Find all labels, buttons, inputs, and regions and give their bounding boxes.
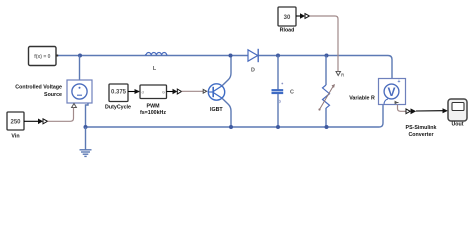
diode D (248, 49, 258, 74)
svg-text:Source: Source (44, 92, 62, 98)
node junction IGBT collector (229, 54, 233, 58)
wire PS Rload to variable resistor (310, 16, 339, 72)
wire PWM to converter (167, 91, 173, 93)
node junction IGBT emitter (229, 125, 233, 129)
scope Uout (448, 99, 467, 128)
svg-text:Uout: Uout (451, 122, 463, 128)
wire bottom rail (86, 105, 384, 128)
constant Rload 30 (278, 7, 296, 33)
svg-text:250: 250 (10, 119, 21, 125)
svg-text:DutyCycle: DutyCycle (105, 104, 131, 110)
svg-text:Controlled Voltage: Controlled Voltage (15, 84, 62, 90)
capacitor C (272, 83, 295, 103)
Simulink-PS converter (PWM) (173, 89, 182, 94)
svg-text:+: + (398, 79, 401, 85)
svg-text:Variable R: Variable R (349, 95, 375, 101)
svg-text:D: D (251, 67, 255, 73)
constant Vin 250 (7, 112, 24, 139)
Simulink-PS converter (Vin) (38, 119, 48, 125)
constant DutyCycle 0.375 (105, 84, 131, 110)
wire top rail (58, 56, 392, 79)
node junction resistor bottom (325, 125, 329, 129)
svg-text:fs=100kHz: fs=100kHz (140, 110, 166, 116)
wire PS gate signal (182, 90, 204, 92)
PWM generator block (140, 85, 167, 116)
variable resistor R (318, 84, 375, 111)
IGBT gate port (203, 89, 206, 93)
node junction ground (84, 125, 88, 129)
variable resistor PS port (336, 72, 341, 76)
svg-text:Vin: Vin (11, 133, 19, 139)
wire CVS negative to bottom rail (86, 103, 89, 127)
svg-text:Converter: Converter (408, 132, 433, 138)
wire Rload to converter (296, 15, 300, 17)
svg-text:Rload: Rload (280, 27, 295, 33)
svg-text:PS-Simulink: PS-Simulink (406, 125, 437, 131)
wire sensor output PS (398, 105, 407, 112)
svg-text:C: C (290, 90, 294, 96)
wire resistor branch top (325, 56, 327, 86)
ground electrical reference (80, 150, 92, 157)
Simulink-PS converter (Rload) (300, 13, 310, 18)
svg-text:IGBT: IGBT (210, 107, 223, 113)
node junction capacitor bottom (276, 125, 280, 129)
wire PS Vin to CVS input (48, 108, 74, 122)
svg-text:0.375: 0.375 (111, 90, 127, 96)
transistor IGBT (208, 56, 231, 128)
svg-text:PWM: PWM (147, 103, 161, 109)
node junction capacitor top (276, 54, 280, 58)
svg-text:30: 30 (284, 15, 291, 21)
node junction resistor top (325, 54, 329, 58)
wire CVS top drop (79, 56, 81, 81)
solver config block f(x)=0 (29, 47, 59, 66)
node junction at CVS top (78, 54, 82, 58)
wire ground stem (85, 127, 87, 150)
PS-Simulink converter (406, 108, 437, 137)
wire Vin to converter (24, 120, 38, 122)
wire capacitor branch (277, 56, 279, 91)
wire converter to scope (416, 110, 443, 112)
controlled voltage source U1 (15, 80, 92, 108)
svg-text:f(x) = 0: f(x) = 0 (34, 54, 50, 60)
svg-text:V: V (387, 85, 395, 99)
wire resistor branch bottom (325, 108, 327, 127)
wire DutyCycle to PWM (128, 91, 139, 93)
voltage sensor (379, 79, 406, 105)
svg-text:G: G (162, 91, 165, 95)
inductor L (145, 53, 168, 72)
